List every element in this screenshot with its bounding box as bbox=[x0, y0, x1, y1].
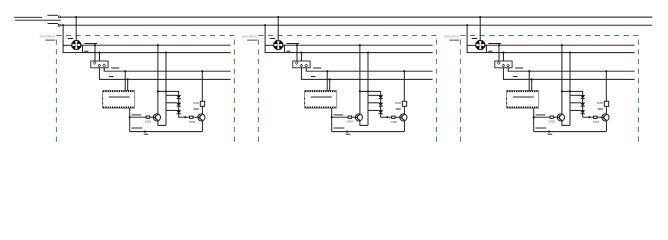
incoming feeder wire L2 bbox=[15, 19, 61, 21]
bus line 2 bbox=[60, 24, 652, 26]
incoming feeder wire L1 bbox=[14, 16, 42, 18]
breaker blade stub L2 bbox=[48, 23, 58, 25]
fan unit 2 bbox=[242, 16, 436, 146]
terminal circle L1 bbox=[58, 16, 60, 18]
fan unit 3 bbox=[444, 16, 638, 146]
fan unit 1 bbox=[40, 16, 234, 146]
bus line 1 bbox=[61, 16, 653, 18]
breaker blade stub L1 bbox=[48, 14, 59, 16]
terminal circle L2 bbox=[58, 24, 60, 26]
